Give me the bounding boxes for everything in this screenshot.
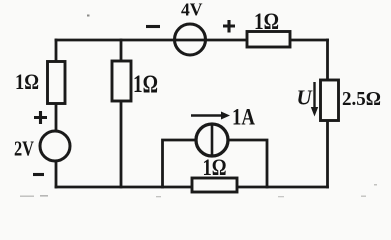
svg-text:1Ω: 1Ω [15, 69, 39, 94]
svg-text:1A: 1A [232, 105, 255, 130]
svg-text:U: U [297, 86, 314, 110]
svg-text:4V: 4V [181, 0, 203, 20]
svg-text:2.5Ω: 2.5Ω [342, 88, 381, 110]
svg-text:1Ω: 1Ω [133, 71, 158, 98]
svg-text:1Ω: 1Ω [254, 9, 279, 34]
svg-text:2V: 2V [14, 137, 34, 161]
svg-text:1Ω: 1Ω [203, 155, 227, 181]
